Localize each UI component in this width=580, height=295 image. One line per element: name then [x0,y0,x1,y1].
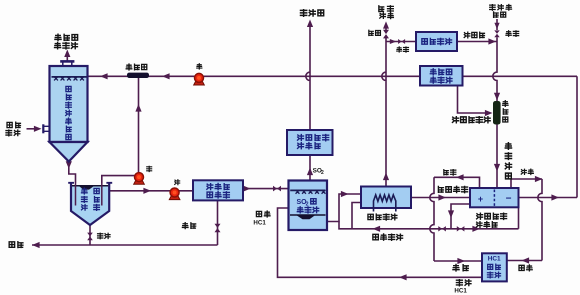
wire hydrogen into HCl unit [507,260,542,262]
arrow condensate [488,38,496,44]
wire main caustic recycle line y=76 (tower to right riser) [88,75,578,77]
label valve purification drain [182,223,195,229]
label valve steam [369,30,381,35]
label valve makeup [506,31,519,37]
tank liquid surface [72,186,108,190]
wire right riser x=577 (caustic return) [576,76,578,197]
label slag discharge [9,242,23,248]
svg-text:−: − [506,193,512,204]
arrow hydrogen into HCl unit [522,257,530,263]
arrow HCl gas [399,274,407,280]
wire tower liquor to concentrator [327,194,361,222]
SO2 tower liquid surface [290,215,326,219]
pump C wastewater transfer [169,188,180,200]
svg-text:+: + [478,194,483,204]
label treated flue gas outlet [55,34,78,49]
label purification text [207,183,230,198]
wire concentrated brine to cell [411,197,470,199]
arrow into concentrator [341,191,349,197]
label SO2 exchange text line1 [297,199,317,208]
label dilute brine [373,234,403,240]
label cell electrodes [478,193,512,204]
arrow steam vent top [383,21,389,28]
label dilute electrolyte vertical [505,143,511,179]
label gas HCl left [253,211,270,227]
arrow into tower on main line [100,73,108,79]
wire treated gas outlet shaft [66,53,68,61]
wire chlorine into HCl unit [434,260,482,262]
mixer mixer1 bar [127,73,149,78]
wire slag discharge line y=245 [32,244,218,246]
valve SO2-tower feed [273,186,281,192]
valve purification drain [215,224,221,233]
label byproduct [300,10,323,17]
spray X row in SO2 tower [296,190,326,194]
arrow dilute brine right [472,226,480,232]
spray nozzles X row in scrubber [54,77,84,81]
unit HCl synthesis box [482,253,507,281]
arrow up to mixer1 [135,104,141,112]
arrow to condenser valve [390,39,397,44]
unit caustic storage tank box [420,66,463,86]
spray header in SO2 tower [290,189,325,191]
unit SO2 exchange tower box [289,181,328,231]
valve makeup water [494,30,499,37]
wire condensate line [457,41,497,43]
valve brine return 2 [457,226,465,231]
label tank text [82,188,100,210]
wire chlorine header [434,177,480,188]
arrow chlorine into HCl unit [457,258,465,264]
wire steam vent riser x=386 [382,38,386,187]
heater coil in concentrator [374,195,396,212]
arrow flue gas inlet [34,126,42,132]
label SO2 exchange text line2 [297,207,318,213]
arrow slag discharge [32,242,40,248]
cell divider dashed [493,190,495,207]
label pump C [175,180,180,185]
label caustic storage text [430,69,452,83]
arrow chlorine left [456,174,464,180]
label makeup water [490,4,512,17]
label condensate water [464,32,484,38]
label pump B [147,166,152,171]
wire dip tube inside tank [101,183,103,206]
arrow steam mid [383,173,389,181]
arrow makeup water [494,23,499,29]
wire mixer2 to cell (dilute electrolyte) [496,125,498,189]
unit wastewater purification box [193,180,243,200]
label condenser text [422,38,452,44]
wire makeup/dilute feed riser x=497 [493,37,497,101]
svg-text:HC1: HC1 [454,287,467,294]
wire anolyte outlet [451,204,470,229]
wire tank outlet to purification unit y=190.8 [109,190,193,192]
arrow on cell right line [551,194,559,200]
svg-text:HC1: HC1 [253,220,266,227]
label small caustic stream [452,117,490,123]
wire tank drain x=90 [89,225,91,245]
wire dilute brine return right part [434,228,519,230]
label SO2 gas [313,168,324,176]
pump A on caustic line [194,73,205,85]
label gas HCl bottom [454,280,471,295]
label hydrogen bottom [519,265,532,271]
valve tank drain [87,233,93,241]
scrubber inlet flange [43,124,49,133]
wire steam branch to condenser [386,41,416,43]
wire pump B suction to tank dip tube [102,176,139,183]
label byproduct production text [298,135,329,149]
arrow out of purification box [243,186,251,192]
wire chlorine downcomer x=434 [430,177,434,261]
arrow mid main line [162,73,170,79]
wire tower cone to tank inlet [69,162,76,184]
label chlorine top [444,170,456,176]
wire hydrogen header [511,179,542,188]
arrow treated gas outlet [64,50,70,58]
arrow into mixer2 [494,93,500,101]
unit byproduct production box [287,130,333,155]
arrow anolyte down [448,210,454,218]
label mixer1 [126,64,147,70]
vessel flue-gas desulfurization scrubber tower [50,66,88,162]
wire small caustic stream [458,86,490,114]
label hydrogen top [521,169,533,174]
svg-text:HC1: HC1 [488,256,501,263]
valve condenser inlet [398,39,405,44]
unit condenser box [416,32,457,51]
spray header in scrubber [52,76,87,78]
wire HCl gas line bottom [278,208,483,277]
wire dilute brine return y=228.8 [339,222,434,229]
arrow concentrated brine [438,194,446,200]
label flue gas inlet [6,122,20,136]
pump B tank recirculation [134,173,145,185]
label chlorine bottom [453,265,468,271]
wire concentrator bottoms return [352,203,361,229]
mixer mixer2 bar [493,101,501,125]
arrow byproduct [307,20,313,28]
arrow small caustic into mixer2 [485,110,493,116]
wire steam vent top segment [385,25,387,31]
wire hydrogen downcomer x=542 [538,179,542,261]
valve brine return 1 [438,226,446,231]
label valve condenser [397,47,409,52]
wire purification drain x=217.5 [217,200,219,245]
arrow SO2 gas [307,168,313,176]
label mixer2 vertical [503,101,508,122]
svg-text:2: 2 [321,170,324,176]
unit concentration box [361,187,411,209]
wire cell right product line y=197.5 [519,197,578,199]
arrow hydrogen right [535,176,543,182]
wire purification to SO2-exchange tower [243,188,289,190]
label valve tank drain [98,233,110,239]
unit membrane electrolysis cell box [470,188,519,207]
wire makeup water top [496,19,498,30]
arrow tank outlet [143,188,151,194]
label HCl synthesis text [487,256,501,278]
arrow tower cone outlet [66,161,72,169]
arrow dilute brine left [373,226,381,232]
vessel desulfurization wastewater tank [68,183,112,225]
scrubber top nozzle [60,61,74,66]
wire flue gas inlet [27,128,36,130]
label cation membrane cell [476,213,506,227]
wire inlet pipe inside tank [75,183,77,206]
label scrubber vertical text [66,86,72,139]
wire byproduct riser x=310 [306,27,310,130]
label concentrated brine [438,186,467,192]
label steam vent [379,6,394,19]
label concentrator [368,214,397,220]
wire riser to cell bottom right x=518.5 [518,207,520,229]
valve steam vent [383,30,389,39]
arrow dilute electrolyte into cell [494,164,500,172]
wire mixer1 to pump B x=138.5 [138,78,140,172]
wire SO2 gas line x=310 [309,155,311,181]
label pump A [197,64,202,69]
